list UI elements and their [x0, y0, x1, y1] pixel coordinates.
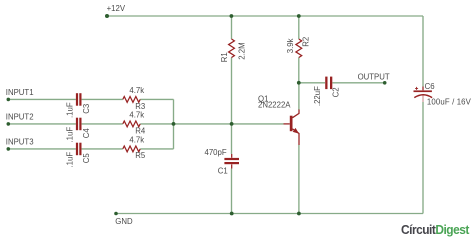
svg-text:.1uF: .1uF — [66, 152, 75, 168]
svg-text:.1uF: .1uF — [66, 102, 75, 118]
svg-text:4.7k: 4.7k — [129, 111, 144, 120]
svg-text:.22uF: .22uF — [313, 86, 322, 106]
svg-text:2N2222A: 2N2222A — [258, 101, 291, 110]
svg-text:+12V: +12V — [107, 4, 126, 13]
svg-text:INPUT3: INPUT3 — [6, 137, 34, 146]
svg-text:R1: R1 — [220, 52, 229, 62]
svg-text:3.9k: 3.9k — [286, 38, 295, 53]
svg-text:R2: R2 — [302, 37, 311, 47]
svg-text:INPUT1: INPUT1 — [6, 88, 34, 97]
svg-text:2.2M: 2.2M — [238, 42, 247, 59]
svg-text:4.7k: 4.7k — [129, 135, 144, 144]
svg-text:4.7k: 4.7k — [129, 86, 144, 95]
svg-text:C1: C1 — [218, 166, 228, 175]
svg-text:C4: C4 — [82, 128, 91, 139]
svg-text:R4: R4 — [135, 126, 146, 135]
svg-text:GND: GND — [115, 217, 133, 226]
svg-text:R5: R5 — [135, 151, 146, 160]
svg-text:INPUT2: INPUT2 — [6, 112, 34, 121]
svg-text:C6: C6 — [425, 82, 435, 91]
svg-text:C2: C2 — [331, 87, 340, 97]
svg-text:470pF: 470pF — [204, 148, 226, 157]
svg-text:OUTPUT: OUTPUT — [358, 72, 390, 81]
svg-text:R3: R3 — [135, 102, 145, 111]
svg-text:C5: C5 — [82, 153, 91, 164]
svg-text:C3: C3 — [82, 104, 91, 114]
svg-text:100uF / 16V: 100uF / 16V — [427, 97, 472, 106]
svg-text:.1uF: .1uF — [66, 127, 75, 143]
